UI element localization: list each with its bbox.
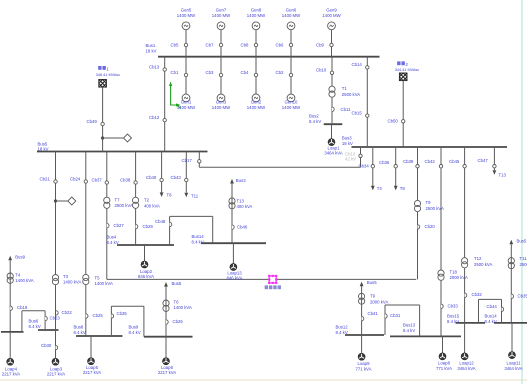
svg-text:2217 kVA: 2217 kVA [83,370,101,375]
svg-text:Cb11: Cb11 [341,107,352,112]
svg-text:1400 kVA: 1400 kVA [95,281,113,286]
svg-text:3464 kVA: 3464 kVA [324,151,342,156]
svg-text:Cb10: Cb10 [316,68,327,73]
svg-text:344.41 MVAsc: 344.41 MVAsc [395,68,420,72]
svg-text:8.4 kV: 8.4 kV [309,119,321,124]
svg-text:Cb34: Cb34 [359,164,370,169]
svg-text:846 kVA: 846 kVA [138,274,154,279]
svg-text:Cb35: Cb35 [518,293,527,298]
svg-text:8.4 kV: 8.4 kV [403,328,415,333]
svg-text:18 kV: 18 kV [342,141,353,146]
svg-text:Cb2: Cb2 [276,70,284,75]
svg-text:Cb31: Cb31 [390,313,401,318]
svg-text:Cb21: Cb21 [40,176,51,181]
svg-text:Cb40: Cb40 [146,175,157,180]
svg-text:1400 kVA: 1400 kVA [174,305,192,310]
svg-text:T13: T13 [237,198,245,203]
svg-text:Cb15: Cb15 [352,110,363,115]
svg-text:8.4 kV: 8.4 kV [129,330,141,335]
svg-text:Bus3: Bus3 [236,178,246,183]
svg-text:2217 kVA: 2217 kVA [2,372,20,377]
svg-text:Cb19: Cb19 [17,305,28,310]
svg-text:1400 MW: 1400 MW [247,13,266,18]
svg-text:Cb37: Cb37 [92,177,103,182]
svg-text:2000 kVA: 2000 kVA [450,275,468,280]
svg-text:Cb33: Cb33 [448,304,459,309]
svg-text:Cb23: Cb23 [50,316,61,321]
svg-text:1400 kVA: 1400 kVA [63,279,81,284]
svg-text:400 kVA: 400 kVA [144,203,160,208]
svg-text:Cb22: Cb22 [62,310,73,315]
svg-text:Cb25: Cb25 [93,313,104,318]
svg-text:Bus14: Bus14 [192,234,205,239]
svg-text:Cb12: Cb12 [149,115,160,120]
svg-text:Bus4: Bus4 [107,235,117,240]
svg-text:Cb50: Cb50 [388,119,399,124]
svg-text:3464 kVA: 3464 kVA [457,366,475,371]
svg-text:T8: T8 [400,186,406,191]
svg-text:Bus14: Bus14 [485,313,498,318]
svg-text:T9: T9 [370,294,376,299]
svg-text:Bus3: Bus3 [342,136,352,141]
svg-text:T18: T18 [450,269,458,274]
svg-text:1400 MW: 1400 MW [282,105,301,110]
svg-text:2217 kVA: 2217 kVA [158,370,176,375]
svg-text:Bus5: Bus5 [172,281,182,286]
svg-text:Cb45: Cb45 [449,159,460,164]
svg-text:T4: T4 [15,272,21,277]
svg-text:1400 MW: 1400 MW [212,105,231,110]
svg-text:18 kV: 18 kV [38,147,49,152]
svg-text:Cb42: Cb42 [425,159,436,164]
svg-text:Cb35: Cb35 [117,311,128,316]
svg-text:Cb29: Cb29 [143,224,154,229]
svg-text:T13: T13 [499,173,507,178]
svg-text:8.4 kV: 8.4 kV [485,319,497,324]
svg-text:T3: T3 [63,274,69,279]
svg-text:2500: 2500 [520,262,527,267]
svg-text:8.4 kV: 8.4 kV [447,319,459,324]
svg-text:Bus12: Bus12 [336,325,349,330]
svg-text:Cb48: Cb48 [155,219,166,224]
svg-text:Cb36: Cb36 [379,160,390,165]
svg-text:Bus2: Bus2 [309,113,319,118]
svg-text:Cb44: Cb44 [487,304,498,309]
svg-text:Cb46: Cb46 [237,224,248,229]
svg-text:8.4 kV: 8.4 kV [336,330,348,335]
svg-text:Cb13: Cb13 [149,64,160,69]
svg-text:846 kVA: 846 kVA [227,276,243,281]
svg-text:Cb32: Cb32 [472,292,483,297]
svg-text:Cb1: Cb1 [171,70,179,75]
svg-text:8.4 kV: 8.4 kV [74,330,86,335]
svg-text:Bus1: Bus1 [146,43,156,48]
svg-text:T6: T6 [174,299,180,304]
svg-text:42 kV: 42 kV [345,156,356,161]
svg-text:771 kVA: 771 kVA [436,366,452,371]
svg-text:T11: T11 [191,194,199,199]
svg-text:Cb43: Cb43 [171,175,182,180]
svg-text:Cb24: Cb24 [70,176,81,181]
svg-text:346.41 MVAsc: 346.41 MVAsc [96,73,121,77]
svg-text:Bus9: Bus9 [15,255,25,260]
svg-text:Cb5: Cb5 [171,42,179,47]
svg-text:2000 kVA: 2000 kVA [370,299,388,304]
svg-text:Bus15: Bus15 [447,313,460,318]
svg-text:Bus13: Bus13 [403,322,416,327]
svg-text:Cb27: Cb27 [114,223,125,228]
svg-text:Loap4: Loap4 [5,366,18,371]
svg-text:1400 MW: 1400 MW [177,13,196,18]
svg-text:2217 kVA: 2217 kVA [47,372,65,377]
svg-text:Cb6: Cb6 [276,42,284,47]
svg-text:T8: T8 [167,193,173,198]
svg-text:Cb4: Cb4 [241,70,249,75]
svg-text:Cb14: Cb14 [352,62,363,67]
svg-text:T11: T11 [520,256,527,261]
svg-text:T1: T1 [342,86,348,91]
svg-text:Cb7: Cb7 [206,42,214,47]
svg-text:2500 kVA: 2500 kVA [115,203,133,208]
svg-text:2500 kVA: 2500 kVA [342,92,360,97]
svg-text:Cb26: Cb26 [173,319,184,324]
svg-text:Bus5: Bus5 [367,280,377,285]
svg-text:Cb47: Cb47 [478,158,489,163]
svg-text:Cb49: Cb49 [87,119,98,124]
svg-text:T2: T2 [144,198,150,203]
svg-text:Bus5: Bus5 [517,239,527,244]
svg-text:3464 kVA: 3464 kVA [504,366,522,371]
svg-text:2500 kVA: 2500 kVA [474,262,492,267]
svg-text:1400 MW: 1400 MW [322,13,341,18]
svg-text:8.4 kV: 8.4 kV [107,240,119,245]
svg-text:1400 MW: 1400 MW [212,13,231,18]
svg-text:Cb8: Cb8 [241,42,249,47]
svg-text:Loap3: Loap3 [50,366,63,371]
svg-text:Cb9: Cb9 [316,42,324,47]
svg-text:Cb41: Cb41 [368,311,379,316]
svg-text:1400 MW: 1400 MW [282,13,301,18]
svg-text:771 kVA: 771 kVA [356,366,372,371]
svg-text:T5: T5 [95,275,101,280]
svg-text:400 kVA: 400 kVA [237,204,253,209]
svg-text:Cb3: Cb3 [206,70,214,75]
svg-text:Cb39: Cb39 [403,159,414,164]
svg-text:Cb30: Cb30 [41,343,52,348]
svg-text:Cb17: Cb17 [182,158,193,163]
svg-text:1400 kVA: 1400 kVA [15,278,33,283]
svg-text:8.4 kV: 8.4 kV [29,324,41,329]
svg-text:T12: T12 [474,256,482,261]
svg-text:T9: T9 [426,200,432,205]
svg-text:Cb20: Cb20 [425,224,436,229]
svg-text:18 kV: 18 kV [146,48,157,53]
svg-text:8.4 kV: 8.4 kV [192,240,204,245]
svg-text:T7: T7 [115,198,121,203]
svg-text:1400 MW: 1400 MW [247,105,266,110]
svg-text:T4: T4 [377,186,383,191]
svg-text:Cb38: Cb38 [120,177,131,182]
